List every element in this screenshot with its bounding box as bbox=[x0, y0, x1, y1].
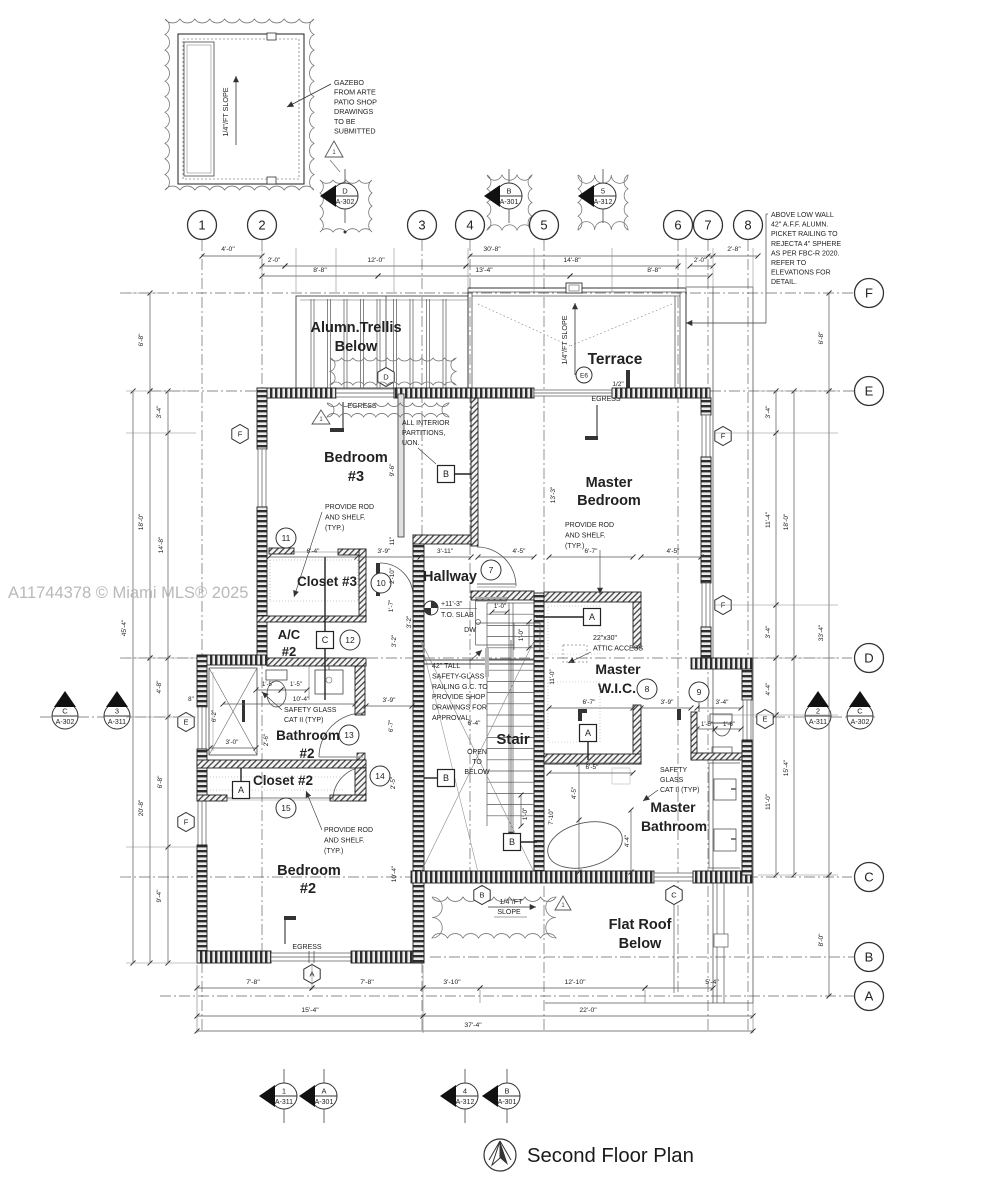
svg-text:37'-4": 37'-4" bbox=[464, 1022, 482, 1029]
west wall lower hatch 3 bbox=[197, 845, 207, 963]
leader line cloud to triangle bbox=[330, 160, 340, 172]
svg-text:2'-8": 2'-8" bbox=[727, 246, 741, 253]
railing note leader bbox=[470, 650, 482, 661]
svg-text:2'-6": 2'-6" bbox=[263, 734, 270, 746]
svg-text:AS PER FBC-R 2020.: AS PER FBC-R 2020. bbox=[771, 250, 840, 257]
railing note bbox=[432, 663, 488, 722]
master bath east wall hatch 2 bbox=[742, 740, 752, 875]
svg-text:5: 5 bbox=[601, 187, 605, 196]
rod leader b3 bbox=[293, 512, 322, 597]
closet3 west stub wall bbox=[269, 548, 294, 554]
svg-text:7: 7 bbox=[704, 218, 711, 233]
dim 3-0 shower bbox=[208, 746, 259, 751]
hex tag F bedroom3 window bbox=[232, 425, 248, 444]
trellis outline bbox=[296, 296, 468, 388]
rod leader master bbox=[597, 550, 603, 594]
gazebo bottom post bbox=[267, 177, 276, 184]
svg-text:A-301: A-301 bbox=[498, 1099, 517, 1106]
svg-text:1'-5": 1'-5" bbox=[290, 682, 302, 688]
svg-text:13: 13 bbox=[344, 730, 354, 740]
svg-text:A-301: A-301 bbox=[500, 199, 519, 206]
svg-text:2: 2 bbox=[816, 707, 820, 716]
svg-text:#2: #2 bbox=[300, 881, 316, 897]
svg-text:Bedroom: Bedroom bbox=[277, 863, 341, 879]
svg-text:A: A bbox=[321, 1087, 326, 1096]
svg-text:CAT II (TYP): CAT II (TYP) bbox=[284, 717, 323, 724]
svg-text:9'-6": 9'-6" bbox=[389, 463, 396, 477]
svg-text:B: B bbox=[509, 837, 515, 847]
svg-text:SLOPE: SLOPE bbox=[497, 909, 521, 916]
section marker C/A-302 left bbox=[52, 691, 78, 729]
svg-text:4: 4 bbox=[463, 1087, 467, 1096]
svg-text:Flat Roof: Flat Roof bbox=[609, 917, 672, 933]
circle tag 11 bbox=[276, 528, 296, 548]
svg-text:3'-2": 3'-2" bbox=[406, 616, 413, 628]
interior dim line y557 bbox=[267, 555, 360, 560]
attic leader bbox=[568, 652, 591, 663]
toilet dims bbox=[695, 727, 718, 732]
bottom extension lines bbox=[196, 965, 198, 1033]
gazebo slope arrow bbox=[233, 76, 239, 145]
grid row C bbox=[120, 876, 852, 878]
grid line 4 (vertical) bbox=[469, 240, 471, 875]
west wall hatch upper bbox=[257, 388, 267, 449]
left chain outer bbox=[131, 389, 136, 966]
door 13 arc (bathroom2) bbox=[319, 713, 363, 757]
south wall hatch to corner bbox=[693, 871, 752, 883]
master east wall hatch top bbox=[701, 398, 711, 415]
svg-text:2'-5": 2'-5" bbox=[390, 777, 397, 789]
gazebo revision cloud bbox=[165, 19, 314, 190]
hex tag F west bbox=[178, 813, 194, 832]
svg-text:PARTITIONS,: PARTITIONS, bbox=[402, 430, 445, 437]
dim 6-5 bbox=[547, 771, 636, 776]
svg-text:AND SHELF.: AND SHELF. bbox=[565, 532, 606, 539]
section marker 4/A-312 bottom bbox=[440, 1069, 478, 1123]
all interior partitions note bbox=[402, 420, 450, 447]
safety glass note bath2 bbox=[284, 707, 337, 724]
svg-text:Master: Master bbox=[586, 475, 633, 491]
svg-text:(TYP.): (TYP.) bbox=[324, 848, 343, 855]
egress flag master bbox=[596, 405, 598, 438]
box tag B bedroom3 bbox=[438, 466, 455, 483]
svg-text:E: E bbox=[865, 384, 874, 399]
safety leader master bbox=[643, 790, 658, 801]
svg-text:3'-9": 3'-9" bbox=[378, 548, 392, 555]
svg-text:33'-4": 33'-4" bbox=[818, 624, 825, 641]
grid bubble 5 bbox=[530, 211, 559, 240]
svg-text:DRAWINGS: DRAWINGS bbox=[334, 107, 373, 116]
door 14 arc (closet2) bbox=[333, 767, 366, 800]
bath2 east wall upper bbox=[355, 666, 365, 715]
svg-text:20'-8": 20'-8" bbox=[138, 799, 145, 816]
shower bath2 bbox=[209, 668, 257, 755]
svg-text:PROVIDE ROD: PROVIDE ROD bbox=[324, 827, 373, 834]
safety glass note master bbox=[660, 767, 699, 794]
closet2 bottom wall hatch bbox=[197, 795, 227, 801]
left extension lines bbox=[126, 293, 196, 963]
svg-text:Master: Master bbox=[650, 799, 696, 815]
svg-text:A-302: A-302 bbox=[56, 719, 75, 726]
north wall hatch west bbox=[257, 388, 336, 398]
svg-text:2: 2 bbox=[258, 218, 265, 233]
svg-text:SAFETY: SAFETY bbox=[660, 767, 688, 774]
svg-text:2'-10": 2'-10" bbox=[389, 568, 396, 584]
gazebo note text bbox=[334, 78, 377, 136]
hallway-south / master-south wall bbox=[471, 591, 534, 600]
svg-text:GAZEBO: GAZEBO bbox=[334, 78, 364, 87]
section marker 2/A-311 right bbox=[805, 691, 831, 729]
svg-text:10'-4": 10'-4" bbox=[391, 865, 398, 882]
svg-text:Bedroom: Bedroom bbox=[324, 450, 388, 466]
master tub bbox=[543, 814, 627, 875]
svg-text:A11744378 © Miami MLS® 2025: A11744378 © Miami MLS® 2025 bbox=[8, 584, 248, 602]
grid bubble 7 bbox=[694, 211, 723, 240]
flat roof bottom edge bbox=[545, 1002, 753, 1004]
wic shelves dotted bbox=[548, 606, 600, 654]
ac2 bottom / bath2 top wall bbox=[267, 658, 366, 666]
top dim row 1 bbox=[200, 254, 265, 259]
master east wall hatch mid bbox=[701, 457, 711, 583]
svg-text:6'-4": 6'-4" bbox=[307, 548, 321, 555]
svg-text:4'-8": 4'-8" bbox=[156, 680, 163, 694]
svg-text:18'-0": 18'-0" bbox=[138, 513, 145, 530]
toilet room west wall bbox=[691, 712, 697, 760]
section marker B/A-301 top bbox=[484, 169, 522, 223]
section marker 1/A-311 bottom bbox=[259, 1069, 297, 1123]
svg-text:UON.: UON. bbox=[402, 440, 420, 447]
grid row B bbox=[430, 956, 854, 958]
svg-text:A: A bbox=[585, 728, 591, 738]
scupper detail bbox=[714, 934, 728, 947]
svg-text:Below: Below bbox=[619, 936, 662, 952]
svg-text:B: B bbox=[506, 187, 511, 196]
svg-text:CAT II (TYP): CAT II (TYP) bbox=[660, 787, 699, 794]
svg-text:13'-3": 13'-3" bbox=[550, 486, 557, 503]
section marker 3/A-311 left bbox=[104, 691, 130, 729]
step wall west bbox=[197, 655, 267, 665]
svg-text:6'-8": 6'-8" bbox=[818, 331, 825, 345]
svg-text:SAFETY GLASS: SAFETY GLASS bbox=[284, 707, 337, 714]
svg-text:PICKET RAILING TO: PICKET RAILING TO bbox=[771, 231, 838, 238]
wic south wall bbox=[544, 754, 641, 764]
svg-text:E: E bbox=[762, 715, 767, 724]
door 7 arc (master bedroom) bbox=[477, 547, 516, 586]
hex tag F master 2 bbox=[715, 596, 731, 615]
master west wall bbox=[471, 398, 478, 546]
svg-text:42" TALL: 42" TALL bbox=[432, 663, 460, 670]
svg-text:3'-4": 3'-4" bbox=[716, 699, 730, 706]
attic access note bbox=[593, 635, 643, 652]
svg-text:(TYP.): (TYP.) bbox=[325, 525, 344, 532]
svg-text:A-311: A-311 bbox=[275, 1099, 293, 1106]
svg-text:10: 10 bbox=[376, 578, 386, 588]
svg-text:A: A bbox=[865, 989, 874, 1004]
svg-text:3'-10": 3'-10" bbox=[443, 979, 461, 986]
grid bubble 4 bbox=[456, 211, 485, 240]
north wall window (bedroom3 egress window) bbox=[336, 389, 394, 397]
svg-text:6'-7": 6'-7" bbox=[583, 699, 597, 706]
svg-text:Alumn.Trellis: Alumn.Trellis bbox=[310, 320, 401, 336]
svg-text:A-301: A-301 bbox=[315, 1099, 334, 1106]
svg-text:1'-5": 1'-5" bbox=[262, 682, 274, 688]
toilet bath2 bbox=[266, 670, 287, 680]
svg-text:#2: #2 bbox=[299, 746, 314, 761]
attic dashed rect bbox=[563, 645, 587, 662]
circle tag 13 bbox=[339, 725, 359, 745]
svg-text:REJECTA 4" SPHERE: REJECTA 4" SPHERE bbox=[771, 241, 841, 248]
stair treads bbox=[487, 603, 534, 816]
flat roof cloud bbox=[432, 897, 556, 938]
svg-text:2'-0": 2'-0" bbox=[268, 257, 280, 264]
svg-text:11": 11" bbox=[389, 537, 396, 546]
svg-text:1'-7": 1'-7" bbox=[388, 600, 395, 612]
cloud around marker D/A-302 bbox=[320, 180, 372, 232]
svg-text:4'-5": 4'-5" bbox=[667, 548, 681, 555]
master bath north jog wall bbox=[691, 658, 752, 669]
circle tag 10 bbox=[371, 573, 391, 593]
svg-text:3'-4": 3'-4" bbox=[156, 405, 163, 419]
terrace ridge dotted left bbox=[478, 304, 570, 346]
bath2 east door jamb bbox=[357, 753, 365, 760]
svg-text:1/2": 1/2" bbox=[612, 381, 624, 388]
svg-text:3'-4": 3'-4" bbox=[765, 625, 772, 639]
svg-text:6'-7": 6'-7" bbox=[388, 720, 395, 732]
stair diagonal 1 bbox=[421, 641, 534, 872]
top dim row 2 bbox=[260, 264, 288, 269]
svg-text:1/4"/FT: 1/4"/FT bbox=[500, 899, 523, 906]
bedroom3 east wall bbox=[398, 394, 404, 537]
closet2 bottom wall stub bbox=[330, 795, 366, 801]
south wall east run hatch bbox=[411, 871, 654, 883]
note leader to terrace wall bbox=[686, 214, 768, 326]
north compass bbox=[484, 1139, 516, 1171]
svg-text:15: 15 bbox=[281, 803, 291, 813]
svg-text:12'-0": 12'-0" bbox=[367, 257, 385, 264]
svg-text:FROM ARTE: FROM ARTE bbox=[334, 88, 376, 97]
svg-text:A-312: A-312 bbox=[594, 199, 613, 206]
svg-text:B: B bbox=[479, 891, 484, 900]
svg-text:Stair: Stair bbox=[496, 731, 530, 748]
stair east wall bbox=[534, 593, 544, 875]
svg-text:W.I.C.: W.I.C. bbox=[598, 680, 636, 696]
svg-text:11'-0": 11'-0" bbox=[765, 793, 772, 810]
terrace ridge dotted right bbox=[570, 304, 672, 346]
wic right wall bbox=[633, 705, 641, 764]
hexagon tag D trellis bbox=[385, 296, 387, 368]
svg-text:14: 14 bbox=[375, 771, 385, 781]
svg-text:11'-0": 11'-0" bbox=[549, 669, 556, 684]
bath2/closet2 wall bbox=[197, 760, 366, 768]
stair diagonal 3 bbox=[421, 641, 478, 872]
svg-text:8: 8 bbox=[645, 684, 650, 694]
bedroom2/stair east wall bbox=[413, 535, 424, 963]
section marker B/A-301 bottom bbox=[482, 1069, 520, 1123]
master sink 2 bbox=[714, 829, 736, 851]
svg-text:TO: TO bbox=[472, 759, 482, 766]
grid line 8 (vertical) bbox=[747, 240, 749, 1032]
svg-text:6'-4": 6'-4" bbox=[468, 720, 482, 727]
svg-text:AND SHELF.: AND SHELF. bbox=[324, 837, 365, 844]
svg-text:C: C bbox=[322, 635, 329, 645]
hall opening sill bbox=[475, 597, 507, 599]
box tag A master south bbox=[584, 609, 601, 626]
svg-text:5: 5 bbox=[540, 218, 547, 233]
svg-text:SUBMITTED: SUBMITTED bbox=[334, 127, 376, 136]
gazebo note leader bbox=[287, 84, 331, 107]
dim 1-0 hall bbox=[490, 610, 510, 615]
svg-text:E: E bbox=[183, 718, 188, 727]
stair diagonal 2 bbox=[421, 641, 534, 872]
svg-text:3'-11": 3'-11" bbox=[437, 548, 454, 555]
svg-text:TO BE: TO BE bbox=[334, 117, 356, 126]
svg-text:#3: #3 bbox=[348, 469, 364, 485]
row bubble D bbox=[855, 644, 884, 673]
svg-text:B: B bbox=[504, 1087, 509, 1096]
svg-text:4'-4": 4'-4" bbox=[624, 835, 631, 847]
svg-text:#2: #2 bbox=[282, 644, 296, 659]
bath2 counter line bbox=[308, 666, 310, 700]
west wall lower window F bbox=[198, 800, 206, 845]
hallway north wall bbox=[413, 535, 471, 544]
svg-text:7: 7 bbox=[489, 565, 494, 575]
svg-text:1: 1 bbox=[198, 218, 205, 233]
grid line 5 (vertical) bbox=[543, 240, 545, 1032]
svg-text:A: A bbox=[238, 785, 244, 795]
svg-text:1/4"/FT SLOPE: 1/4"/FT SLOPE bbox=[560, 315, 569, 364]
svg-text:ELEVATIONS FOR: ELEVATIONS FOR bbox=[771, 270, 831, 277]
svg-text:D: D bbox=[383, 373, 389, 382]
svg-text:T.O. SLAB: T.O. SLAB bbox=[441, 612, 474, 619]
closet3 opening line bbox=[294, 551, 338, 553]
dim 1-0 rot wic bbox=[527, 620, 532, 651]
svg-text:C: C bbox=[671, 891, 677, 900]
svg-text:2'-0": 2'-0" bbox=[694, 257, 706, 264]
svg-text:EGRESS: EGRESS bbox=[292, 944, 322, 951]
grid row E right bbox=[710, 390, 854, 392]
svg-text:15'-4": 15'-4" bbox=[301, 1007, 319, 1014]
grid row F (horizontal) bbox=[120, 292, 854, 294]
ac2 top wall bbox=[257, 616, 366, 622]
master sink 1 bbox=[714, 779, 736, 800]
svg-text:8: 8 bbox=[744, 218, 751, 233]
svg-text:15'-4": 15'-4" bbox=[783, 759, 790, 776]
svg-text:BELOW: BELOW bbox=[464, 769, 490, 776]
stair up arrow bbox=[508, 640, 514, 838]
row bubble F bbox=[855, 279, 884, 308]
svg-text:12'-10": 12'-10" bbox=[564, 979, 586, 986]
svg-text:6'-8": 6'-8" bbox=[157, 775, 164, 789]
south wall bedroom2 window bbox=[271, 953, 351, 961]
cloud around marker 5/A-312 bbox=[578, 175, 628, 230]
svg-text:Below: Below bbox=[335, 339, 378, 355]
svg-text:45'-4": 45'-4" bbox=[121, 619, 128, 636]
bedroom2 window center tick bbox=[308, 951, 310, 963]
circle tag 12 bbox=[340, 630, 360, 650]
master bath east wall window E bbox=[743, 700, 751, 740]
grid line 2 (vertical) bbox=[261, 240, 263, 963]
grid row D bbox=[120, 657, 852, 659]
closet3 rod dotted bbox=[270, 559, 358, 561]
svg-text:GLASS: GLASS bbox=[660, 777, 684, 784]
master east wall hatch low bbox=[701, 627, 711, 658]
svg-text:14'-8": 14'-8" bbox=[158, 536, 165, 553]
south wall bedroom2 hatch east bbox=[351, 951, 424, 963]
right chain outer bbox=[827, 389, 832, 878]
svg-text:PROVIDE ROD: PROVIDE ROD bbox=[325, 504, 374, 511]
box tag B stair west bbox=[438, 770, 455, 787]
svg-text:ATTIC ACCESS: ATTIC ACCESS bbox=[593, 645, 643, 652]
master south wall stub bbox=[633, 602, 641, 648]
svg-text:Bathroom: Bathroom bbox=[276, 728, 340, 743]
roof edge line x753 bbox=[752, 287, 754, 1003]
svg-text:9: 9 bbox=[697, 687, 702, 697]
svg-text:42" A.F.F. ALUMN.: 42" A.F.F. ALUMN. bbox=[771, 222, 828, 229]
svg-text:7'-10": 7'-10" bbox=[548, 809, 555, 825]
provide rod note closet2 bbox=[324, 827, 373, 855]
grid line 7 (vertical) bbox=[707, 240, 709, 1032]
circle tag 15 bbox=[276, 798, 296, 818]
grid line 1 (vertical) bbox=[201, 240, 203, 1032]
north wall hatch mid bbox=[394, 388, 534, 398]
svg-text:A: A bbox=[589, 612, 595, 622]
closet2 rod dotted bbox=[210, 776, 345, 778]
terrace slope arrow bbox=[572, 303, 578, 375]
section marker 5/A-312 top bbox=[578, 169, 616, 223]
svg-text:F: F bbox=[184, 818, 189, 827]
rod leader c2 bbox=[306, 791, 322, 830]
svg-text:A-302: A-302 bbox=[851, 719, 870, 726]
tag E6 bbox=[576, 367, 592, 383]
south wall window (tub window) bbox=[654, 873, 693, 881]
svg-text:A-312: A-312 bbox=[456, 1099, 475, 1106]
svg-text:11'-4": 11'-4" bbox=[765, 511, 772, 528]
svg-text:A-311: A-311 bbox=[108, 719, 126, 726]
bottom dim row 3 bbox=[195, 1029, 756, 1034]
terrace top post bbox=[566, 283, 582, 293]
grid bubble 2 bbox=[248, 211, 277, 240]
svg-text:A-311: A-311 bbox=[809, 719, 827, 726]
gazebo planter rect bbox=[184, 42, 214, 176]
section marker C/A-302 right bbox=[847, 691, 873, 729]
svg-text:3'-9": 3'-9" bbox=[661, 699, 675, 706]
svg-text:4'-5": 4'-5" bbox=[513, 548, 527, 555]
provide rod note bedroom3 bbox=[325, 504, 374, 532]
flat roof slope arrow bbox=[488, 904, 536, 910]
bottom dim row 2 bbox=[195, 1014, 426, 1019]
top dim row 3 bbox=[260, 274, 381, 279]
closet3 top wall bbox=[338, 549, 366, 555]
master bath east wall hatch 1 bbox=[742, 669, 752, 700]
egress flag bedroom3 bbox=[342, 402, 344, 429]
svg-text:Master: Master bbox=[595, 661, 641, 677]
north wall egress opening bbox=[534, 390, 612, 396]
svg-text:1'-0": 1'-0" bbox=[494, 603, 506, 610]
toilet room entry bits bbox=[677, 709, 681, 720]
circle tag 14 bbox=[370, 766, 390, 786]
grid line 3 (vertical) bbox=[421, 240, 423, 1032]
svg-text:Bathroom: Bathroom bbox=[641, 818, 707, 834]
row bubble B bbox=[855, 943, 884, 972]
svg-text:(TYP.): (TYP.) bbox=[565, 543, 584, 550]
svg-text:Second Floor Plan: Second Floor Plan bbox=[527, 1145, 694, 1167]
shower door bar bbox=[242, 700, 245, 722]
svg-text:14'-8": 14'-8" bbox=[563, 257, 581, 264]
svg-text:E6: E6 bbox=[580, 372, 588, 379]
row bubble C bbox=[855, 863, 884, 892]
box tag B stair east bbox=[504, 834, 521, 851]
hex tag F master 1 bbox=[715, 427, 731, 446]
